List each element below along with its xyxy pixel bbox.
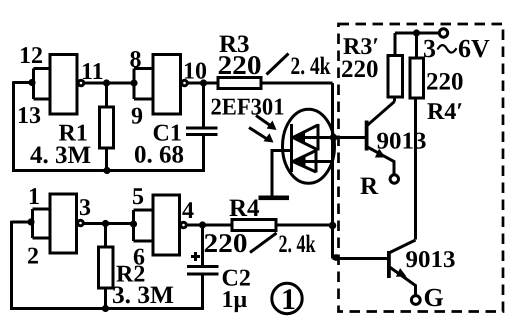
svg-text:9: 9	[131, 104, 143, 130]
wire osc1 feedback rail (left/bottom loop to C1 bottom)	[14, 81, 204, 170]
transistor Q2 9013	[387, 240, 416, 296]
wire R3 to base rail	[261, 82, 333, 85]
capacitor C2 electrolytic	[187, 225, 219, 274]
junction dot R4 node	[329, 222, 337, 230]
svg-text:R4′: R4′	[427, 99, 463, 125]
junction dot U2a input	[27, 218, 34, 225]
wire U1a output to U1b input	[85, 82, 135, 85]
svg-text:R4: R4	[229, 195, 260, 222]
gate U2b (pins 5,6 out 4)	[134, 195, 187, 255]
svg-text:11: 11	[81, 59, 104, 85]
svg-text:0. 68: 0. 68	[134, 142, 184, 169]
light arrow 1	[256, 116, 277, 131]
svg-text:3. 3M: 3. 3M	[112, 282, 174, 309]
LED D1 top	[292, 124, 333, 151]
svg-text:220: 220	[426, 69, 464, 96]
svg-text:220: 220	[341, 56, 379, 83]
ground	[259, 196, 290, 201]
wire R4' to Q2 collector	[414, 98, 417, 240]
value 220/2.4k (R3)	[218, 50, 331, 80]
resistor R3'	[388, 33, 403, 102]
wire U1b output to R3	[188, 82, 218, 85]
svg-text:8: 8	[130, 47, 142, 73]
gate U1b (pins 8,9 out 10)	[134, 55, 187, 115]
junction dot U2b input	[130, 220, 137, 227]
svg-text:9013: 9013	[377, 129, 427, 155]
resistor R4'	[410, 33, 424, 98]
svg-text:R: R	[360, 173, 379, 200]
junction dot node 11 / R1 top	[103, 79, 110, 86]
junction dot U1a input	[28, 79, 35, 86]
wire feed to U1a inputs	[14, 81, 35, 84]
junction dot R1 / rail	[103, 167, 110, 174]
gate U1a (pins 12,13 out 11)	[34, 55, 84, 115]
wire osc2 feedback rail	[12, 221, 203, 309]
svg-text:5: 5	[132, 184, 144, 210]
svg-text:2EF301: 2EF301	[211, 95, 285, 121]
junction dot node 3 / R2 top	[102, 220, 109, 227]
terminal supply	[439, 29, 447, 37]
label 3~6V	[423, 34, 490, 63]
polarity plus of C2	[191, 252, 200, 261]
svg-text:3: 3	[79, 195, 91, 221]
junction dot R2 / rail	[102, 305, 109, 312]
junction dot supply	[413, 29, 420, 36]
svg-text:1μ: 1μ	[222, 287, 248, 313]
value 220/2.4k (R4)	[204, 228, 316, 258]
wire U2b output to R4	[187, 224, 232, 227]
svg-text:6V: 6V	[458, 34, 490, 63]
wire R4 to rail	[276, 224, 333, 227]
svg-text:G: G	[424, 283, 444, 312]
svg-text:220: 220	[204, 228, 248, 258]
junction dot Q2 base corner	[333, 254, 340, 261]
svg-text:2. 4k: 2. 4k	[279, 231, 316, 258]
svg-text:1: 1	[28, 184, 40, 210]
svg-text:6: 6	[133, 245, 145, 271]
figure number 1	[272, 283, 302, 316]
svg-text:13: 13	[17, 103, 41, 129]
capacitor C1	[186, 83, 218, 135]
junction dot node 10 / C1 top	[200, 79, 207, 86]
terminal R	[390, 175, 398, 183]
junction dot node 4 / C2 top	[199, 221, 206, 228]
LED D2 bottom	[293, 150, 333, 173]
wire feed to U2a inputs	[12, 221, 35, 224]
wire rail to Q2 base	[333, 257, 388, 260]
svg-text:12: 12	[19, 43, 43, 69]
photo device 2EF301 envelope	[283, 109, 335, 183]
wire LED cathode to ground	[272, 151, 292, 197]
resistor R1	[100, 83, 114, 171]
LED common cathode bar	[290, 124, 293, 172]
svg-text:2. 4k: 2. 4k	[291, 53, 331, 80]
resistor R2	[99, 224, 114, 309]
junction dot base node Q1	[330, 134, 338, 142]
resistor R4	[232, 220, 276, 231]
junction dot U1b input	[130, 79, 137, 86]
gate U2a (pins 1,2 out 3)	[33, 194, 84, 253]
light arrow 2	[249, 128, 274, 143]
terminal G	[411, 296, 420, 305]
svg-text:2: 2	[27, 244, 39, 270]
svg-text:9013: 9013	[406, 247, 456, 273]
svg-text:4. 3M: 4. 3M	[30, 142, 91, 169]
transistor Q1 9013	[335, 102, 395, 176]
wire U2a output to U2b input	[84, 222, 134, 225]
wire vertical base rail	[331, 83, 334, 259]
svg-text:220: 220	[218, 50, 262, 80]
svg-text:1: 1	[281, 283, 296, 316]
resistor R3	[218, 78, 261, 89]
dashed enclosure	[339, 24, 504, 312]
svg-text:4: 4	[182, 198, 194, 224]
wire supply top	[395, 32, 439, 35]
